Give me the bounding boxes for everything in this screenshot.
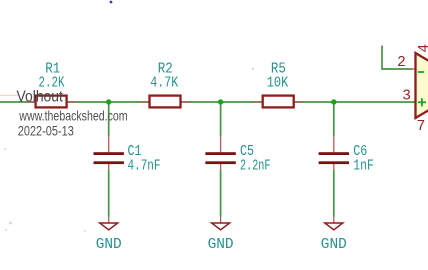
speck: blue dot top: [110, 1, 113, 4]
resistor R1 pins: [26, 101, 77, 103]
svg-text:10K: 10K: [267, 75, 289, 91]
capacitor C6 pins: [333, 136, 335, 170]
ground GND3 stub: [333, 217, 335, 223]
svg-text:www.thebackshed.com: www.thebackshed.com: [19, 108, 128, 124]
wire: feedback to op-amp pin 2: [382, 46, 412, 70]
svg-text:3: 3: [402, 89, 411, 105]
capacitor C1 pins: [108, 136, 110, 170]
capacitor C6 plates: [319, 152, 349, 164]
svg-text:2: 2: [397, 55, 406, 71]
svg-text:2022-05-13: 2022-05-13: [18, 123, 74, 139]
resistor R5 pins: [253, 101, 303, 103]
resistor R2 pins: [140, 101, 191, 103]
speck: faint dot lower left b: [84, 230, 86, 232]
svg-text:1nF: 1nF: [353, 159, 374, 175]
ground GND1 symbol: [100, 223, 118, 230]
svg-text:2.2nF: 2.2nF: [240, 159, 271, 175]
resistor R1 body: [36, 96, 67, 108]
wire: C5 branch lower: [220, 170, 222, 217]
svg-text:GND: GND: [321, 237, 347, 253]
resistor R2 body: [150, 96, 181, 108]
svg-text:7: 7: [417, 119, 426, 135]
capacitor C5 plates: [205, 152, 235, 164]
ground GND1 stub: [108, 217, 110, 223]
wire: ghost stub left edge: [0, 94, 18, 96]
op-amp U1 body: [416, 53, 428, 118]
ground GND3 symbol: [325, 223, 343, 230]
op-amp U1 pin 2 stub: [410, 68, 416, 70]
wire: C1 branch lower: [108, 170, 110, 217]
wire: main horizontal net y=102: [0, 101, 416, 103]
ground GND2 symbol: [212, 223, 230, 230]
svg-text:GND: GND: [96, 237, 122, 253]
speck: faint mark left edge: [9, 222, 12, 225]
svg-text:GND: GND: [208, 237, 234, 253]
capacitor C1 plates: [94, 152, 124, 164]
wire: C6 branch upper: [333, 102, 335, 136]
capacitor C5 pins: [220, 136, 222, 170]
ground GND2 stub: [220, 217, 222, 223]
svg-text:Volhout: Volhout: [17, 89, 64, 106]
speck: faint dot near R2: [252, 68, 254, 70]
wire: C1 branch upper: [108, 102, 110, 136]
svg-text:4: 4: [417, 44, 428, 53]
junction node B (R2/R5/C5): [218, 99, 223, 104]
wire: C6 branch lower: [333, 170, 335, 217]
junction node C (R5/C6): [331, 99, 336, 104]
speck: faint dot left: [4, 148, 6, 150]
junction node A (R1/R2/C1): [106, 99, 111, 104]
svg-text:4.7nF: 4.7nF: [128, 159, 161, 175]
op-amp U1 non-inverting input mark: [418, 98, 426, 106]
resistor R5 body: [263, 96, 294, 108]
wire: C5 branch upper: [220, 102, 222, 136]
speck: faint dot lower left a: [5, 229, 7, 231]
svg-text:4.7K: 4.7K: [150, 75, 178, 91]
op-amp U1 inverting input mark: [418, 71, 424, 73]
